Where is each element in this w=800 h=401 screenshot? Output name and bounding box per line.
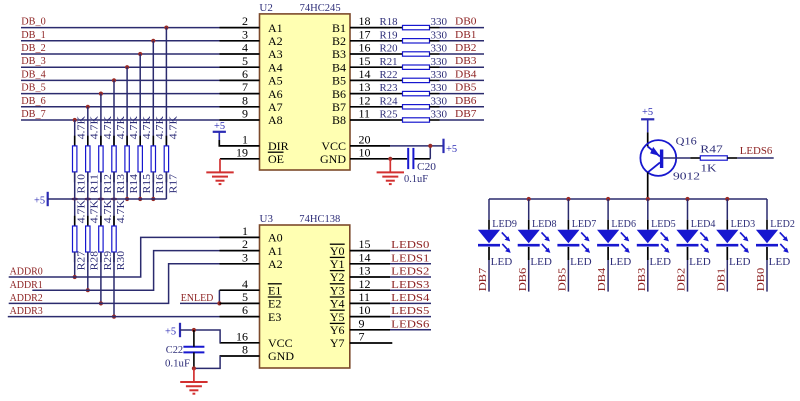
value label LED (LED4) <box>689 257 711 268</box>
designator R25 <box>380 110 398 121</box>
svg-text:E1: E1 <box>268 283 281 297</box>
svg-text:4: 4 <box>242 41 248 55</box>
wire net ADDR3 <box>8 316 220 318</box>
U2 pin 7 stub (A6) <box>220 93 260 95</box>
net label DB2 <box>677 268 688 292</box>
designator LED7 <box>572 219 597 230</box>
diode LED7 <box>557 230 579 246</box>
pin number 6 <box>242 303 248 317</box>
value 1K (R47) <box>701 164 718 175</box>
net label DB_1 <box>21 30 45 41</box>
svg-text:9: 9 <box>242 107 248 121</box>
designator R10 <box>77 174 88 194</box>
U3 pin 5 stub (E2) <box>220 302 260 304</box>
svg-text:DB_3: DB_3 <box>21 56 45 67</box>
pin number 15 <box>359 54 371 68</box>
value label LED (LED6) <box>610 257 632 268</box>
resistor R10 body <box>73 146 77 172</box>
junction ADDR3 <box>112 315 116 319</box>
designator LED3 <box>731 219 756 230</box>
svg-text:3: 3 <box>242 250 248 264</box>
svg-text:14: 14 <box>359 250 371 264</box>
svg-text:LEDS3: LEDS3 <box>391 280 429 291</box>
designator R21 <box>380 57 398 68</box>
wire R24 to DB6 <box>430 106 485 108</box>
net label DB_2 <box>21 43 45 54</box>
ground symbol at C20 <box>377 159 404 184</box>
designator R23 <box>380 83 398 94</box>
wire LED anode rail <box>489 198 767 200</box>
svg-text:DB_7: DB_7 <box>21 109 45 120</box>
wire B2 to R19 <box>390 40 403 42</box>
junction on GND wire <box>388 157 392 161</box>
svg-text:DB5: DB5 <box>455 83 477 94</box>
pin number 16 <box>236 329 248 343</box>
U2 pin 15 stub (B4) <box>350 66 390 68</box>
pin name Y2 with overline <box>330 270 345 284</box>
value 0.1uF (C20) <box>404 174 428 185</box>
svg-text:DB7: DB7 <box>455 109 477 120</box>
designator R30 <box>116 251 127 271</box>
svg-text:LEDS2: LEDS2 <box>391 267 429 278</box>
junction C22 top <box>192 328 196 332</box>
wire B6 to R23 <box>390 93 403 95</box>
junction C20/VCC <box>428 144 432 148</box>
pin name A7 <box>268 100 283 114</box>
wire R47 to LEDS6 <box>727 157 773 159</box>
U2 pin 14 stub (B5) <box>350 79 390 81</box>
svg-text:R28: R28 <box>90 251 101 271</box>
svg-text:4.7K: 4.7K <box>103 199 114 223</box>
value 4.7K (R28) <box>90 199 101 223</box>
pin name B7 <box>332 100 346 114</box>
wire net ADDR0 <box>9 237 220 277</box>
resistor R29 body <box>99 226 103 252</box>
svg-text:0.1uF: 0.1uF <box>404 174 428 185</box>
wire +5 to Q16 emitter <box>647 132 649 146</box>
svg-text:Y1: Y1 <box>330 257 345 271</box>
junction DB_1 pull-up <box>151 39 155 43</box>
pin name E2 with overline <box>268 297 282 311</box>
value 4.7K (R17) <box>168 115 179 139</box>
wire R15 to +5 rail <box>139 172 141 199</box>
pin number 1 <box>242 133 248 147</box>
svg-text:9012: 9012 <box>673 171 700 182</box>
value label LED (LED2) <box>769 257 791 268</box>
pin name Y7 <box>330 336 345 350</box>
svg-text:R17: R17 <box>168 174 179 194</box>
pin number 3 <box>242 250 248 264</box>
pin name A8 <box>268 113 283 127</box>
svg-text:R20: R20 <box>380 44 398 55</box>
capacitor C22 <box>183 330 204 368</box>
pin number 20 <box>359 133 371 147</box>
value 4.7K (R27) <box>77 199 88 223</box>
U3 pin 9 stub (Y6) <box>350 329 390 331</box>
svg-text:DB0: DB0 <box>756 268 767 292</box>
ground symbol at C22 <box>180 368 207 393</box>
U2 pin 4 stub (A3) <box>220 53 260 55</box>
svg-text:LED8: LED8 <box>532 219 557 230</box>
pin number 5 <box>242 54 248 68</box>
U3 pin 3 stub (A2) <box>220 263 260 265</box>
junction C22 bottom <box>192 366 196 370</box>
value 330 (R23) <box>431 83 448 94</box>
svg-text:+5: +5 <box>214 121 225 132</box>
wire R18 to DB0 <box>430 27 485 29</box>
junction rail R28 (under wires) <box>84 198 91 201</box>
LED3 light arrows <box>740 232 749 253</box>
svg-text:16: 16 <box>236 329 248 343</box>
svg-text:R25: R25 <box>380 110 398 121</box>
capacitor C20 <box>408 148 413 169</box>
svg-text:0.1uF: 0.1uF <box>165 359 190 370</box>
svg-text:R19: R19 <box>380 30 398 41</box>
svg-text:5: 5 <box>242 290 248 304</box>
svg-text:330: 330 <box>431 57 448 68</box>
pin number 16 <box>359 41 371 55</box>
net label DB0 <box>455 17 477 28</box>
svg-text:GND: GND <box>320 152 346 166</box>
wire DB_4 down to R13 <box>113 80 115 145</box>
junction rail R29 (under wires) <box>97 198 104 201</box>
svg-text:B2: B2 <box>332 34 346 48</box>
svg-text:330: 330 <box>431 30 448 41</box>
net label DB7 <box>455 109 477 120</box>
value 330 (R21) <box>431 57 448 68</box>
LED6 light arrows <box>621 232 630 253</box>
net label ADDR2 <box>10 293 43 304</box>
svg-text:LED9: LED9 <box>492 219 517 230</box>
wire rail down to R28 <box>87 199 89 226</box>
svg-text:E3: E3 <box>268 310 281 324</box>
net label DB3 <box>637 268 648 292</box>
diode LED3 <box>716 230 738 246</box>
wire R16 to +5 rail <box>152 172 154 199</box>
net label DB3 <box>455 56 477 67</box>
net label LEDS5 <box>391 306 429 317</box>
wire B8 to R25 <box>390 119 403 121</box>
wire net DB_7 <box>21 119 220 121</box>
diode LED5 <box>637 230 659 246</box>
svg-text:2: 2 <box>242 14 248 28</box>
resistor R22 body <box>403 78 430 82</box>
svg-text:LED3: LED3 <box>731 219 756 230</box>
power +5 symbol at U2 VCC <box>444 139 458 155</box>
LED5 light arrows <box>661 232 670 253</box>
wire R19 to DB1 <box>430 40 485 42</box>
U2 pin 13 stub (B6) <box>350 93 390 95</box>
junction DB_6 pull-up <box>86 105 90 109</box>
U2 pin 20 stub (VCC) <box>350 145 390 147</box>
pin number 12 <box>359 93 371 107</box>
wire R25 to DB7 <box>430 119 485 121</box>
svg-text:Y4: Y4 <box>330 297 345 311</box>
junction LED rail <box>606 197 610 201</box>
svg-text:R15: R15 <box>142 174 153 194</box>
value 4.7K (R14) <box>129 115 140 139</box>
pin name Y4 with overline <box>330 297 345 311</box>
wire R20 to DB2 <box>430 53 485 55</box>
pin number 14 <box>359 250 371 264</box>
value 330 (R20) <box>431 44 448 55</box>
wire rail down to R27 <box>74 199 76 226</box>
pin name A5 <box>268 74 283 88</box>
pin name GND <box>320 152 346 166</box>
diode LED8 <box>518 230 540 246</box>
pin number 13 <box>359 264 371 278</box>
pin name A0 <box>268 231 283 245</box>
svg-text:LEDS1: LEDS1 <box>391 253 429 264</box>
power +5 symbol at Q16 <box>641 107 654 132</box>
pin number 1 <box>242 224 248 238</box>
wire R21 to DB3 <box>430 66 485 68</box>
svg-text:18: 18 <box>359 14 371 28</box>
U3 pin 6 stub (E3) <box>220 316 260 318</box>
svg-text:6: 6 <box>242 303 248 317</box>
value label LED (LED3) <box>729 257 751 268</box>
designator LED2 <box>770 219 795 230</box>
wire net LEDS5 <box>390 316 431 318</box>
wire R28 to ADDR1 <box>87 252 89 290</box>
value 4.7K (R12) <box>103 115 114 139</box>
net label ADDR3 <box>10 306 43 317</box>
wire B4 to R21 <box>390 66 403 68</box>
resistor R11 pin leads <box>87 136 89 183</box>
resistor R13 body <box>112 146 116 172</box>
wire R22 to DB4 <box>430 79 485 81</box>
svg-text:2: 2 <box>242 237 248 251</box>
svg-text:4.7K: 4.7K <box>77 199 88 223</box>
designator U2 <box>259 2 272 14</box>
pin number 17 <box>359 27 371 41</box>
designator R20 <box>380 44 398 55</box>
svg-text:Y3: Y3 <box>330 283 345 297</box>
U2 pin 19 stub (OE) <box>220 158 260 160</box>
wire rail to LED2 <box>766 199 768 230</box>
resistor R20 body <box>403 52 430 56</box>
svg-text:4.7K: 4.7K <box>168 115 179 139</box>
wire R17 to +5 rail <box>165 172 167 199</box>
svg-text:LED: LED <box>570 257 592 268</box>
U2 pin 8 stub (A7) <box>220 106 260 108</box>
value 4.7K (R15) <box>142 115 153 139</box>
power +5 symbol at U3 VCC <box>165 323 180 338</box>
designator LED4 <box>691 219 716 230</box>
resistor R30 pin leads <box>113 216 115 262</box>
value 330 (R25) <box>431 110 448 121</box>
U3 pin 10 stub (Y5) <box>350 316 390 318</box>
designator C22 <box>166 345 183 356</box>
pin name GND <box>268 349 294 363</box>
svg-text:DB3: DB3 <box>637 268 648 292</box>
wire net DB_6 <box>21 106 220 108</box>
svg-text:10: 10 <box>359 145 371 159</box>
pin number 5 <box>242 290 248 304</box>
svg-text:LEDS0: LEDS0 <box>391 240 429 251</box>
designator R11 <box>90 174 101 194</box>
svg-text:6: 6 <box>242 67 248 81</box>
pin number 2 <box>242 14 248 28</box>
resistor R16 body <box>151 146 155 172</box>
resistor R12 body <box>99 146 103 172</box>
designator LED8 <box>532 219 557 230</box>
wire LED3 cathode <box>726 247 728 292</box>
wire R12 to +5 rail <box>100 172 102 199</box>
svg-text:R27: R27 <box>77 251 88 271</box>
pin name Y5 with overline <box>330 310 345 324</box>
resistor R30 body <box>112 226 116 252</box>
resistor R10 pin leads <box>74 136 76 183</box>
svg-text:4.7K: 4.7K <box>155 115 166 139</box>
svg-text:R10: R10 <box>77 174 88 194</box>
U2 pin 12 stub (B7) <box>350 106 390 108</box>
svg-text:4.7K: 4.7K <box>129 115 140 139</box>
svg-text:4.7K: 4.7K <box>142 115 153 139</box>
wire R29 to ADDR2 <box>100 252 102 303</box>
svg-text:LED2: LED2 <box>770 219 795 230</box>
svg-text:Y6: Y6 <box>330 323 345 337</box>
pin name VCC <box>321 139 346 153</box>
svg-text:7: 7 <box>359 330 365 344</box>
value 4.7K (R30) <box>116 199 127 223</box>
wire +5 to DIR <box>219 140 259 146</box>
value 330 (R24) <box>431 96 448 107</box>
pin name A2 <box>268 257 283 271</box>
svg-text:DB3: DB3 <box>455 56 477 67</box>
junction LED rail <box>685 197 689 201</box>
svg-text:R18: R18 <box>380 17 398 28</box>
svg-text:DB_5: DB_5 <box>21 83 45 94</box>
net label DB_6 <box>21 96 45 107</box>
svg-text:ADDR2: ADDR2 <box>10 293 43 304</box>
wire B7 to R24 <box>390 106 403 108</box>
svg-text:DB2: DB2 <box>455 43 477 54</box>
junction rail R15 <box>138 197 142 201</box>
pin name E3 <box>268 310 281 324</box>
svg-text:1K: 1K <box>701 164 718 175</box>
resistor R18 body <box>403 25 430 29</box>
svg-text:LED: LED <box>689 257 711 268</box>
svg-text:B6: B6 <box>332 87 346 101</box>
wire LED5 cathode <box>647 247 649 292</box>
U3 pin 1 stub (A0) <box>220 236 260 238</box>
svg-text:+5: +5 <box>642 107 653 118</box>
pin number 8 <box>242 93 248 107</box>
U2 pin 17 stub (B2) <box>350 40 390 42</box>
pin name A2 <box>268 34 283 48</box>
U3 pin 4 stub (E1) <box>220 289 260 291</box>
pin number 7 <box>359 330 365 344</box>
svg-text:DB6: DB6 <box>518 268 529 292</box>
svg-text:ENLED: ENLED <box>181 293 214 304</box>
wire LED6 cathode <box>607 247 609 292</box>
value 4.7K (R16) <box>155 115 166 139</box>
junction rail R16 <box>151 197 155 201</box>
svg-text:330: 330 <box>431 70 448 81</box>
wire net DB_4 <box>21 79 220 81</box>
LED9 light arrows <box>502 232 511 253</box>
svg-text:15: 15 <box>359 54 371 68</box>
svg-text:B8: B8 <box>332 113 346 127</box>
junction DB_7 pull-up <box>73 118 77 122</box>
net label DB5 <box>558 268 569 292</box>
value label LED (LED9) <box>491 257 513 268</box>
svg-text:LEDS4: LEDS4 <box>391 293 430 304</box>
svg-text:VCC: VCC <box>268 336 293 350</box>
net label LEDS3 <box>391 280 429 291</box>
svg-text:LEDS5: LEDS5 <box>391 306 429 317</box>
svg-text:DB6: DB6 <box>455 96 477 107</box>
net label DB_4 <box>21 69 46 80</box>
resistor R29 pin leads <box>100 216 102 262</box>
pin number 6 <box>242 67 248 81</box>
part type 9012 <box>673 171 700 182</box>
svg-text:B3: B3 <box>332 47 346 61</box>
resistor R17 body <box>164 146 168 172</box>
svg-text:1: 1 <box>242 224 248 238</box>
value 0.1uF (C22) <box>165 359 190 370</box>
designator R13 <box>116 174 127 194</box>
svg-text:8: 8 <box>242 93 248 107</box>
net label LEDS6 <box>740 146 773 157</box>
junction LED rail <box>527 197 531 201</box>
LED4 light arrows <box>700 232 709 253</box>
resistor R27 body <box>73 226 77 252</box>
net label DB1 <box>455 30 477 41</box>
svg-text:A2: A2 <box>268 34 283 48</box>
wire +5 rail <box>48 198 167 200</box>
wire LED9 cathode <box>488 247 490 292</box>
svg-text:DB1: DB1 <box>716 268 727 292</box>
resistor R23 body <box>403 91 430 95</box>
svg-text:C20: C20 <box>417 162 436 173</box>
wire net DB_5 <box>21 93 220 95</box>
ground symbol at OE <box>206 159 233 184</box>
pin number 10 <box>359 303 371 317</box>
net label ADDR0 <box>10 267 43 278</box>
wire VCC to +5 <box>390 145 444 147</box>
wire R11 to +5 rail <box>87 172 89 199</box>
net label DB0 <box>756 268 767 292</box>
svg-text:A3: A3 <box>268 47 283 61</box>
designator R47 <box>700 144 723 155</box>
designator R14 <box>129 173 140 193</box>
U2 pin 10 stub (GND) <box>350 158 390 160</box>
pin name A1 <box>268 21 283 35</box>
pin name A6 <box>268 87 283 101</box>
svg-text:A4: A4 <box>268 60 283 74</box>
svg-text:74HC138: 74HC138 <box>299 213 340 225</box>
U3 pin 16 stub (VCC) <box>220 342 260 344</box>
pin name A4 <box>268 60 283 74</box>
pin name Y6 with overline <box>330 323 345 337</box>
pin number 14 <box>359 67 371 81</box>
wire net LEDS6 <box>390 329 431 331</box>
power +5 symbol at U2 DIR <box>213 121 226 140</box>
net label ADDR1 <box>10 280 43 291</box>
svg-text:LED6: LED6 <box>611 219 636 230</box>
pin name B3 <box>332 47 346 61</box>
designator R19 <box>380 30 398 41</box>
value label LED (LED8) <box>530 257 552 268</box>
resistor R16 pin leads <box>152 136 154 183</box>
pin number 7 <box>242 80 248 94</box>
wire rail down to R30 <box>113 199 115 226</box>
pin name A3 <box>268 47 283 61</box>
pin number 11 <box>359 290 371 304</box>
svg-text:LED: LED <box>491 257 513 268</box>
